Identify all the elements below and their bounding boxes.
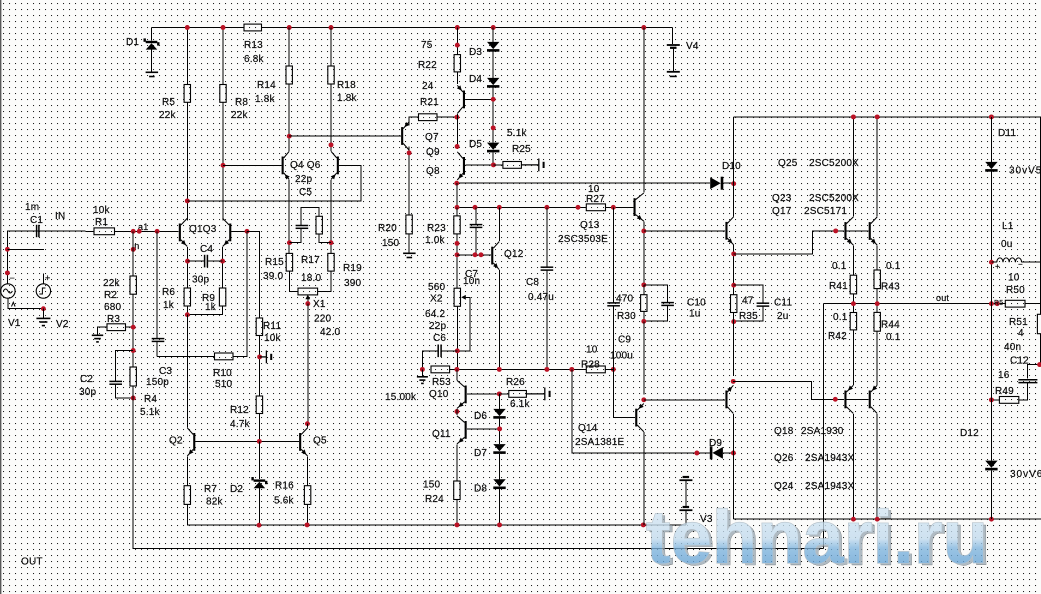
diode D12 <box>985 461 997 468</box>
resistor R18 <box>328 66 334 84</box>
resistor R50 <box>1005 300 1025 307</box>
diode D7 <box>493 444 505 451</box>
node R5-Q1 junction <box>185 198 190 203</box>
resistor R17 <box>316 216 322 234</box>
node R3 <box>131 325 136 330</box>
node Q3 base <box>245 229 250 234</box>
svg-text:Q2: Q2 <box>169 436 183 447</box>
node R30 bottom <box>641 319 646 324</box>
capacitor C3 <box>152 339 165 342</box>
ground below D1 <box>146 72 159 76</box>
wire Q6 base loop <box>187 165 361 201</box>
wire C5 bridge top <box>301 208 319 226</box>
svg-text:15.00k: 15.00k <box>385 392 417 403</box>
node Q10 base-R26 <box>497 391 502 396</box>
svg-text:22k: 22k <box>103 278 121 289</box>
node C4 left <box>185 259 190 264</box>
transistor Q8 <box>457 152 465 180</box>
svg-text:560: 560 <box>428 282 446 293</box>
svg-text:2SA1943X: 2SA1943X <box>805 481 855 492</box>
transistor Q11 <box>457 416 467 444</box>
wire R10 to R11 riser <box>233 231 247 356</box>
svg-text:D8: D8 <box>474 484 487 495</box>
node D6-Q11base <box>497 426 502 431</box>
wire R28 right <box>605 368 613 370</box>
diode D10 <box>710 177 721 189</box>
resistor R44 <box>874 312 880 331</box>
node Q8 emitter <box>454 181 459 186</box>
svg-text:40n: 40n <box>1004 342 1021 353</box>
svg-text:+: + <box>45 273 50 283</box>
wire between upper bases <box>847 230 869 232</box>
resistor R2 <box>130 276 136 294</box>
capacitor C7 <box>470 225 483 228</box>
transistor Q2 <box>187 428 195 456</box>
wire R17 bottom <box>319 234 331 243</box>
wire Q17 collector <box>876 117 878 217</box>
wire out feedback riser <box>823 304 825 549</box>
node Q7 collector <box>407 150 412 155</box>
wire Q6 emitter down <box>330 180 332 254</box>
wire Q8 collector down <box>456 183 458 207</box>
resistor R16 <box>304 486 310 505</box>
wire R41 to out <box>852 294 854 304</box>
wire Q10 base <box>467 393 499 395</box>
wire Q24 emitter to R44 <box>876 331 878 385</box>
wire V3 bottom to rail <box>685 511 687 525</box>
wire X2 wiper <box>457 297 470 351</box>
node Q9-Q8 mid <box>455 144 460 149</box>
svg-text:22p: 22p <box>295 174 313 185</box>
svg-text:R19: R19 <box>343 263 362 274</box>
resistor R9 <box>219 288 225 306</box>
resistor R26 <box>509 391 527 398</box>
wire X2 bottom <box>456 306 458 369</box>
resistor R28 <box>586 366 605 373</box>
node L1 left <box>989 260 994 265</box>
node V1 top <box>5 270 10 275</box>
resistor R13 <box>244 24 262 31</box>
wire R18 to Q6 <box>330 84 332 151</box>
wire C2 branch <box>116 351 134 382</box>
nodes on R28 line <box>454 367 459 372</box>
capacitor C9 <box>607 303 620 306</box>
transistor Q26 <box>844 385 853 413</box>
nodes a1 <box>131 229 136 234</box>
svg-text:R4: R4 <box>144 394 157 405</box>
svg-text:R18: R18 <box>337 80 356 91</box>
nodes top rail <box>851 114 856 119</box>
wire Q4 emitter down <box>288 180 290 254</box>
wire Q1 emitter down <box>186 247 188 288</box>
wire R24 to rail <box>456 500 458 525</box>
svg-text:R17: R17 <box>301 255 320 266</box>
svg-text:R14: R14 <box>257 80 276 91</box>
svg-text:R1: R1 <box>95 217 108 228</box>
svg-text:39.0: 39.0 <box>263 271 284 282</box>
capacitor C10 loop <box>644 285 668 302</box>
svg-text:42.0: 42.0 <box>320 327 341 338</box>
svg-text:R26: R26 <box>506 377 525 388</box>
node D5-R25-Q8base <box>491 162 496 167</box>
wire C2 bottom <box>116 384 134 398</box>
wire R50 right <box>1025 303 1041 305</box>
wire Q13 collector up <box>643 28 645 193</box>
ground below R20 <box>403 253 416 257</box>
svg-text:Q4 Q6: Q4 Q6 <box>290 160 321 171</box>
svg-text:2SA1381E: 2SA1381E <box>575 437 625 448</box>
capacitor C5 <box>296 226 309 229</box>
wire R43 to out <box>876 289 878 304</box>
wire Q3base to R11 <box>247 231 259 318</box>
wire C9 bottom <box>612 306 614 369</box>
wire C1 to R1 <box>40 230 94 232</box>
svg-text:1.0k: 1.0k <box>425 235 446 246</box>
svg-text:Q23: Q23 <box>772 193 792 204</box>
transistor Q1 <box>179 218 188 246</box>
node C12 corner <box>1037 362 1041 367</box>
resistor R7 <box>184 486 190 505</box>
svg-text:R51: R51 <box>1009 317 1028 328</box>
wire Q8 emitter line <box>457 182 711 184</box>
node C2 top <box>131 348 136 353</box>
wire R19 to X1 <box>318 271 331 291</box>
wire Q25 emitter to R41 <box>852 245 854 275</box>
nodes bottom rail <box>851 517 856 522</box>
wire right rail <box>1039 117 1041 314</box>
svg-text:C5: C5 <box>299 187 312 198</box>
node D10 out <box>731 181 736 186</box>
diode D4 <box>487 78 499 85</box>
terminator after R25 <box>521 159 543 172</box>
wire R49 left <box>991 399 999 401</box>
node Q9 base junction <box>491 97 496 102</box>
wire C8 bottom <box>546 270 548 369</box>
resistor R43 <box>874 270 880 289</box>
wire R3 left to ground <box>98 327 108 335</box>
wire Q11 emitter to R24 <box>456 444 458 481</box>
wire R1 to Q1 <box>115 230 179 232</box>
wire Q17 emitter to R43 <box>876 245 878 270</box>
svg-text:D11: D11 <box>998 128 1016 139</box>
svg-text:L1: L1 <box>1002 221 1014 232</box>
svg-text:R13: R13 <box>244 40 263 51</box>
svg-text:2SC5200X: 2SC5200X <box>809 158 859 169</box>
node C4 right <box>220 259 225 264</box>
resistor R21 <box>419 114 438 121</box>
resistor R3 <box>107 324 126 331</box>
svg-text:0.1: 0.1 <box>832 261 847 272</box>
svg-text:0u: 0u <box>1001 239 1013 250</box>
resistor R12 <box>256 396 262 414</box>
node R30 top <box>641 282 646 287</box>
nodes on Q12 base line <box>473 252 478 257</box>
transistor Q24 <box>869 385 878 413</box>
svg-text:R28: R28 <box>581 360 600 371</box>
svg-text:10k: 10k <box>93 205 111 216</box>
wire input left <box>37 230 39 232</box>
svg-text:C2: C2 <box>80 374 93 385</box>
svg-text:5.1k: 5.1k <box>140 407 161 418</box>
diode D5 <box>487 143 499 150</box>
transistor Q18 driver <box>725 385 733 413</box>
wire C9 top <box>612 207 614 302</box>
svg-text:1k: 1k <box>163 300 175 311</box>
diode D8 <box>493 479 505 486</box>
svg-text:R11: R11 <box>263 321 281 332</box>
wire R7 to rail <box>187 504 686 525</box>
potentiometer X2 <box>454 288 460 306</box>
ground V4 <box>670 75 677 77</box>
wire D6-D7 <box>499 419 501 444</box>
node upper base <box>833 228 838 233</box>
wire D3 top <box>492 28 494 42</box>
wire Q7 base <box>289 135 401 137</box>
node X2 bottom-wiper-C6 <box>455 348 460 353</box>
svg-text:Q8: Q8 <box>426 166 440 177</box>
ground below R3 <box>92 335 103 342</box>
transistor Q14 <box>635 404 644 432</box>
wire R23 bottom <box>456 234 458 288</box>
node junctions on R27 line <box>455 205 460 210</box>
wire upper base path <box>734 231 844 254</box>
wire stub toward V2 <box>7 248 43 250</box>
wire D1 branch <box>151 28 153 41</box>
wire Q26 collector down <box>852 414 854 519</box>
svg-text:1.8k: 1.8k <box>255 94 276 105</box>
capacitor C1 <box>37 225 39 237</box>
wire R2 top <box>132 231 134 276</box>
node R16 rail <box>305 522 310 527</box>
node in <box>131 247 136 252</box>
svg-text:C6: C6 <box>433 333 446 344</box>
wire D5 to R25 node <box>492 152 494 165</box>
node Q10-Q11 <box>454 409 459 414</box>
capacitor C4 <box>205 255 208 268</box>
node C5 bridge right <box>329 240 334 245</box>
wire C7 top <box>475 207 477 224</box>
node R22 pin <box>455 43 460 48</box>
wire D12 to rail <box>990 470 992 519</box>
svg-text:R6: R6 <box>162 287 175 298</box>
node lower base <box>833 397 838 402</box>
transistor Q6 <box>331 151 339 179</box>
wire Q5 collector up <box>307 424 309 428</box>
svg-text:C4: C4 <box>200 244 213 255</box>
svg-text:16: 16 <box>998 370 1010 381</box>
svg-text:10n: 10n <box>463 276 480 287</box>
wire feedback down <box>133 386 823 548</box>
svg-text:10k: 10k <box>264 333 282 344</box>
wire Q25 collector <box>852 117 854 217</box>
svg-text:Q18: Q18 <box>774 426 794 437</box>
node X1 wiper <box>305 301 310 306</box>
svg-text:22p: 22p <box>429 321 447 332</box>
svg-text:2SC5200X: 2SC5200X <box>809 193 859 204</box>
wire Q3 emitter down <box>222 247 224 288</box>
transistor Q25 <box>844 217 853 245</box>
wire R22 top <box>456 28 458 55</box>
svg-text:2SA1930: 2SA1930 <box>801 426 844 437</box>
wire out line <box>824 303 1006 305</box>
resistor R20 <box>406 215 412 234</box>
node D9 left <box>694 451 699 456</box>
svg-text:R30: R30 <box>617 311 636 322</box>
diode D11 <box>985 162 997 169</box>
resistor R1 <box>94 228 115 235</box>
battery V3 <box>679 477 692 480</box>
svg-text:R5: R5 <box>994 300 1003 307</box>
wire Q11 base <box>467 428 500 430</box>
wire C3 top <box>156 231 158 338</box>
node Q5 collector junction <box>305 421 310 426</box>
svg-text:Q5: Q5 <box>313 436 327 447</box>
wire to R25 <box>493 164 503 166</box>
wire R53 to node <box>450 368 457 370</box>
wire R27 to Q13 <box>606 206 633 208</box>
svg-text:2SC3503E: 2SC3503E <box>558 234 608 245</box>
resistor R24 <box>454 481 460 500</box>
svg-text:150p: 150p <box>146 377 169 388</box>
svg-text:R25: R25 <box>512 144 531 155</box>
wire C1 to V1 <box>7 231 36 284</box>
wire Q13 emitter down <box>643 222 645 285</box>
node R23 pin <box>455 241 460 246</box>
wire D3-D4 <box>492 52 494 78</box>
svg-text:R41: R41 <box>829 281 848 292</box>
svg-text:C12: C12 <box>1010 356 1029 367</box>
resistor R49 <box>999 397 1018 404</box>
wire Q9 collector to Q8 <box>456 114 458 149</box>
svg-text:IN: IN <box>55 211 65 222</box>
transistor Q13 <box>634 193 644 221</box>
capacitor C12 <box>1018 380 1037 383</box>
wire R23 top <box>456 207 458 216</box>
wire C6 right <box>441 350 457 352</box>
svg-text:R5: R5 <box>162 97 175 108</box>
diode D9 <box>710 446 713 459</box>
resistor R53 <box>431 366 450 373</box>
wire Q7 collector to R20 <box>408 147 410 216</box>
nodes out line <box>851 301 856 306</box>
potentiometer X1 <box>298 288 318 295</box>
svg-text:22k: 22k <box>231 110 249 121</box>
resistor R11 <box>256 318 262 336</box>
svg-text:Q12: Q12 <box>504 249 524 260</box>
wire D2 top <box>258 441 260 479</box>
wire Q13e to Q23 base <box>644 230 725 232</box>
transistor Q3 <box>223 218 232 246</box>
node R11-R12 <box>257 354 262 359</box>
wire C8 top <box>546 207 548 267</box>
resistor R23 <box>454 216 460 234</box>
node D4-D5 mid <box>491 125 496 130</box>
svg-text:D1: D1 <box>126 37 139 48</box>
svg-text:10: 10 <box>1008 273 1020 284</box>
wire Q10 collector <box>456 369 458 380</box>
svg-text:D2: D2 <box>230 484 243 495</box>
transistor Q23 driver <box>725 217 733 245</box>
wire Q12 collector up <box>498 207 500 241</box>
svg-text:Q26: Q26 <box>774 453 794 464</box>
svg-text:22k: 22k <box>159 110 177 121</box>
wire R12 bottom <box>258 414 260 442</box>
node R8 to Q4 base tap <box>221 163 226 168</box>
svg-text:Q10: Q10 <box>429 389 449 400</box>
wire C12 to R49 <box>1019 382 1028 400</box>
wire Q9 base <box>465 98 493 100</box>
wire C5 bottom <box>289 228 301 242</box>
wire R8 top <box>222 28 224 85</box>
wire R6-R9 join <box>187 306 222 315</box>
svg-text:1m: 1m <box>25 202 39 213</box>
svg-text:R20: R20 <box>378 223 397 234</box>
wire C9node to Q14 base <box>613 369 635 417</box>
zener diode D2 <box>254 482 266 488</box>
resistor R35 <box>731 295 737 313</box>
battery V4 <box>667 45 680 48</box>
resistor R51 <box>1037 314 1041 333</box>
wire D10 to rail <box>723 182 733 184</box>
node base line R12 <box>257 439 262 444</box>
capacitor C11 loop <box>734 285 763 303</box>
wire to R26 <box>499 393 509 395</box>
wire Q23 collector <box>733 184 735 217</box>
svg-text:47: 47 <box>742 296 754 307</box>
node C5 bridge left <box>287 240 292 245</box>
wire Q3 base right <box>232 230 247 232</box>
node R53 left <box>420 367 425 372</box>
svg-text:0.1: 0.1 <box>886 332 901 343</box>
wire R5 top <box>186 28 188 85</box>
zener diode D1 <box>146 43 158 49</box>
terminator at R11 node <box>260 351 272 364</box>
svg-text:510: 510 <box>215 379 233 390</box>
svg-text:R35: R35 <box>739 311 758 322</box>
node R18-Q6 <box>329 142 334 147</box>
svg-text:10: 10 <box>588 184 600 195</box>
svg-text:R12: R12 <box>230 405 249 416</box>
wire D4 down <box>492 88 494 143</box>
svg-text:R43: R43 <box>881 282 900 293</box>
svg-text:2SC5171: 2SC5171 <box>804 206 847 217</box>
wire R18 top <box>330 28 332 67</box>
wire R16 to rail <box>307 504 309 525</box>
wire D11 top <box>990 117 992 162</box>
wire D6 top <box>498 394 500 409</box>
node Q18 emitter top <box>731 379 736 384</box>
diode D3 <box>487 42 499 49</box>
svg-text:Q7: Q7 <box>425 132 439 143</box>
node Q12 base line left <box>455 252 460 257</box>
wire R20 to ground <box>408 234 410 253</box>
svg-text:D9: D9 <box>709 438 722 449</box>
svg-text:1u: 1u <box>689 309 701 320</box>
svg-text:V1: V1 <box>8 318 21 329</box>
wire around Q14 label <box>572 369 710 453</box>
resistor R19 <box>328 253 334 271</box>
wire R15 to X1 <box>289 271 298 291</box>
resistor R14 <box>286 66 292 84</box>
transistor Q4 <box>282 151 290 179</box>
wire Q14 collector down <box>643 432 645 525</box>
inductor L1 <box>997 258 1022 262</box>
svg-text:4: 4 <box>1018 328 1024 339</box>
resistor R4 <box>130 367 136 386</box>
node Q7 base tap <box>287 134 292 139</box>
node tail <box>185 312 190 317</box>
node R4 bottom <box>131 396 136 401</box>
